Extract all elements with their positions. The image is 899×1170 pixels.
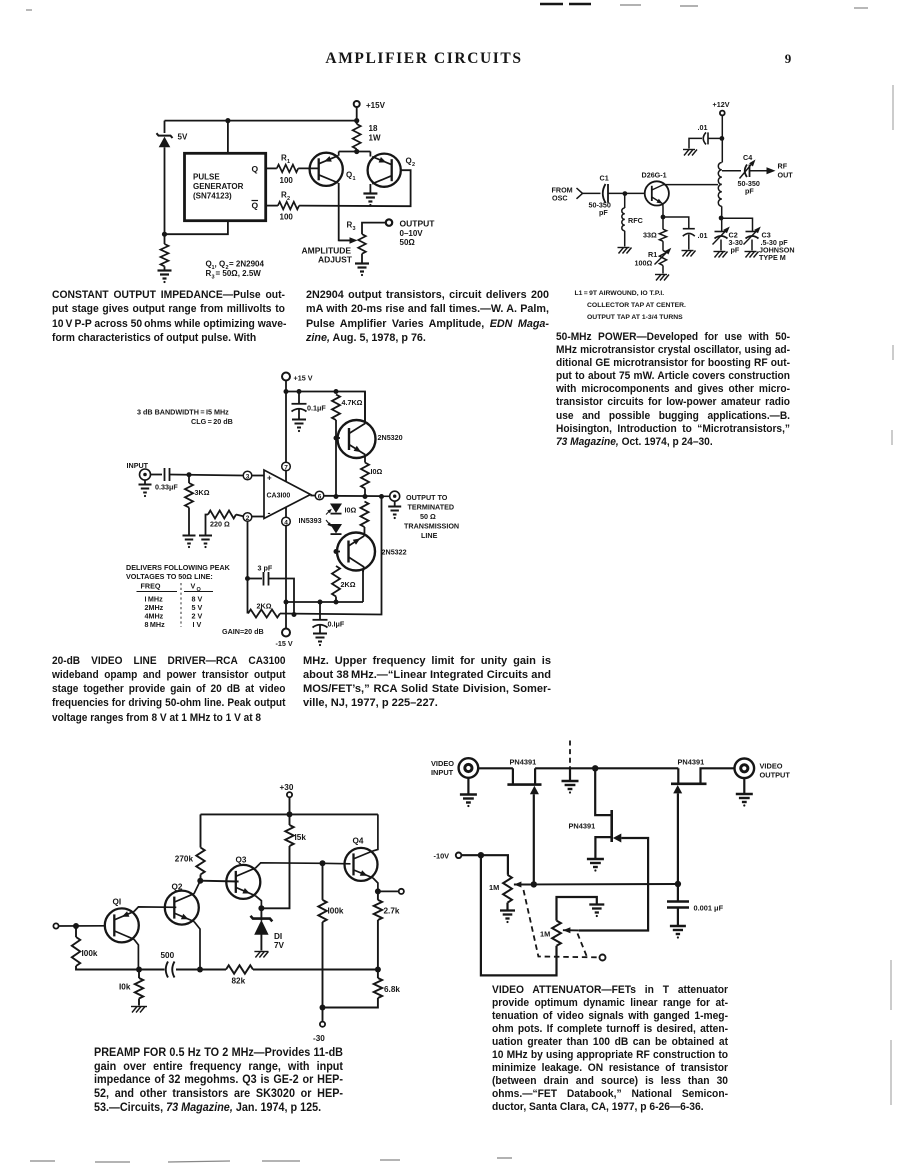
node base/RFC junction — [623, 191, 628, 196]
resistor 10 ohm upper — [361, 463, 369, 489]
svg-text:OUTPUT: OUTPUT — [760, 771, 791, 780]
resistor 33 ohm — [659, 229, 666, 241]
svg-text:(SN74123): (SN74123) — [193, 192, 232, 201]
resistor 10k — [138, 970, 140, 979]
svg-text:TRANSMISSION: TRANSMISSION — [404, 522, 459, 531]
wire pot2 top to ground — [557, 897, 597, 921]
-30 terminal — [322, 1008, 324, 1022]
VIDEO OUTPUT coax connector — [735, 759, 755, 779]
wire cap to rail and ground — [708, 137, 722, 139]
wire pin2 feedback down — [247, 521, 249, 613]
resistor 10 ohm lower — [361, 502, 369, 528]
svg-text:4.7KΩ: 4.7KΩ — [342, 398, 363, 407]
ground 220 — [199, 535, 212, 537]
svg-text:PULSE: PULSE — [193, 173, 220, 182]
resistor 3K — [185, 483, 193, 508]
input terminal preamp — [53, 923, 58, 928]
wire R2 to Q2 base — [299, 170, 411, 206]
wire C4 to RF OUT arrow — [750, 170, 767, 172]
svg-text:I0k: I0k — [119, 983, 131, 992]
wire 100k to bottom rail — [76, 966, 165, 970]
potentiometer 1M output — [552, 921, 561, 946]
svg-text:RF: RF — [778, 162, 788, 171]
scan artifacts top edge — [540, 3, 591, 5]
wire 10k to ground — [138, 999, 140, 1006]
wire base stub — [336, 437, 340, 439]
svg-text:3: 3 — [246, 473, 250, 480]
svg-text:OUTPUT TAP AT 1-3/4 TURNS: OUTPUT TAP AT 1-3/4 TURNS — [587, 314, 683, 321]
wire +30 rail — [201, 813, 378, 815]
resistor 100k input — [75, 926, 77, 937]
ground output bypass — [313, 633, 327, 635]
svg-text:I5k: I5k — [295, 833, 307, 842]
wire cap to ground — [298, 410, 300, 419]
ground under Q2 — [363, 192, 377, 194]
node input / 100k — [73, 923, 79, 929]
ground top bypass — [683, 149, 695, 151]
pin 2 — [243, 513, 252, 522]
wire R1 to ground — [662, 266, 664, 274]
transistor 2N5320 — [338, 420, 376, 458]
wire C2 to ground — [720, 240, 722, 251]
caption: preamp — [94, 1046, 343, 1115]
wire Q output to R1 — [266, 167, 277, 169]
svg-text:3 pF: 3 pF — [258, 564, 273, 573]
wire +15 down to pin7 — [285, 381, 287, 463]
wire pin7/pin4 stubs to opamp — [285, 471, 287, 482]
wire feedback return to output — [280, 497, 382, 615]
wire Q1 collector down to pot — [339, 183, 352, 240]
svg-text:1M: 1M — [540, 930, 550, 939]
wire cap to Q2 emitter node — [176, 969, 226, 971]
wire coil bottom to tank — [721, 206, 723, 231]
node 82k / 6.8k — [375, 967, 381, 973]
node output/10ohm — [363, 494, 368, 499]
ground video output — [743, 778, 745, 793]
wire box top supply stub — [227, 121, 229, 154]
node output/diode — [334, 494, 339, 499]
wire cap to ground — [677, 908, 679, 926]
caption: constant output impedance col1 — [52, 288, 285, 345]
svg-text:.01: .01 — [698, 123, 708, 132]
svg-text:pF: pF — [731, 246, 740, 255]
node +15 rail junction — [354, 118, 359, 123]
unlabeled resistor lower left — [161, 244, 169, 266]
wire cap to ground — [688, 235, 690, 250]
svg-text:L1 = 9T AIRWOUND, IO T.P.I.: L1 = 9T AIRWOUND, IO T.P.I. — [575, 290, 665, 297]
wire FET3 gate down — [677, 793, 679, 884]
ground C3 — [745, 251, 757, 253]
pulse generator U1 SN74123 box — [185, 153, 266, 220]
node bypass junction — [720, 136, 725, 141]
ground pot2 top — [589, 903, 604, 905]
wire C1 to base node — [609, 192, 645, 194]
svg-text:50Ω: 50Ω — [400, 238, 416, 247]
wire resistor to emitter rail — [356, 149, 358, 152]
svg-text:Q: Q — [406, 157, 412, 166]
node rail/0.1uF — [318, 600, 323, 605]
capacitor 0.1uF output bypass — [319, 602, 321, 619]
svg-text:2: 2 — [246, 515, 250, 522]
svg-text:100Ω: 100Ω — [635, 259, 653, 268]
wiper arrow amplitude adjust — [339, 239, 350, 241]
wire Q1 collector to Q2 base — [134, 907, 176, 912]
capacitor 0.001 uF — [677, 884, 679, 901]
caption: constant output impedance col2 — [306, 288, 549, 345]
svg-text:I0Ω: I0Ω — [345, 506, 357, 515]
node Q4 base / 100k — [320, 860, 326, 866]
wire cap to pin3 — [170, 475, 244, 476]
svg-text:5V: 5V — [178, 133, 188, 142]
wire box bottom return — [165, 221, 228, 235]
wire gate bus — [534, 883, 678, 885]
svg-text:9: 9 — [785, 51, 792, 66]
svg-text:2N5322: 2N5322 — [382, 548, 407, 557]
wire 2N5322 collector down — [362, 570, 364, 602]
svg-text:C4: C4 — [743, 153, 752, 162]
inductor RFC — [624, 194, 626, 208]
transistor Q4 — [345, 848, 378, 881]
node +30 rail — [287, 811, 293, 817]
svg-text:VIDEO: VIDEO — [431, 759, 454, 768]
output terminal preamp — [378, 890, 398, 892]
wire Q2 emitter up to rail — [369, 152, 371, 157]
ground pot1 — [500, 909, 515, 911]
ground zener — [254, 951, 268, 953]
svg-text:O: O — [197, 587, 202, 593]
wire 2K to -15 rail — [335, 597, 337, 603]
svg-text:pF: pF — [599, 208, 608, 217]
node rail/supply junction — [284, 389, 289, 394]
svg-text:OUTPUT: OUTPUT — [400, 219, 436, 229]
svg-text:100: 100 — [280, 213, 294, 222]
node -10V loop — [478, 852, 484, 858]
svg-text:pF: pF — [745, 187, 754, 196]
svg-text:6: 6 — [318, 493, 322, 500]
node input/3K — [187, 472, 192, 477]
svg-text:18: 18 — [369, 124, 378, 133]
node rail/4.7K junction — [334, 389, 339, 394]
svg-text:INPUT: INPUT — [431, 768, 454, 777]
wire node to Q3 base — [200, 880, 238, 883]
wire pot to ground — [361, 254, 363, 263]
node base 2N5320 — [334, 436, 339, 441]
transistor Q3 — [226, 865, 260, 899]
wire 6.8k to bottom node — [323, 998, 378, 1008]
svg-text:-10V: -10V — [434, 852, 450, 861]
svg-text:100: 100 — [280, 176, 294, 185]
wire rail to 270k — [200, 814, 202, 847]
transistor D26G-1 — [645, 181, 669, 205]
node tank junction — [719, 216, 724, 221]
ground R1 — [655, 274, 667, 276]
pin 6 — [315, 491, 324, 500]
ground lower left — [158, 269, 172, 271]
ground output terminal — [394, 501, 396, 505]
svg-text:AMPLIFIER CIRCUITS: AMPLIFIER CIRCUITS — [325, 50, 522, 67]
wire +12V down to coil — [721, 115, 723, 162]
-15V terminal — [282, 629, 290, 637]
wire left vertical to zener — [164, 121, 166, 133]
svg-text:2: 2 — [287, 196, 290, 202]
resistor 82k — [226, 965, 253, 973]
pin 7 — [282, 462, 291, 471]
svg-text:2KΩ: 2KΩ — [341, 580, 356, 589]
svg-text:7: 7 — [284, 464, 288, 471]
wire 82k to right node — [253, 969, 378, 971]
svg-text:+: + — [267, 474, 272, 483]
resistor 100k bias — [322, 863, 324, 900]
wire input to FET1 source — [478, 767, 513, 769]
wire opamp output — [311, 495, 316, 497]
+15V terminal circuit3 — [282, 373, 290, 381]
diode 1N5393 lower — [330, 524, 342, 534]
svg-text:8 MHz: 8 MHz — [145, 620, 166, 629]
potentiometer 1M input — [503, 875, 512, 903]
svg-text:2: 2 — [412, 162, 415, 168]
wire FET2 gate to pot2 — [579, 838, 648, 931]
resistor 15k — [285, 825, 293, 846]
+15V terminal — [354, 101, 360, 107]
capacitor 3 pF — [248, 578, 263, 580]
transistor 2N5322 — [337, 533, 375, 571]
caption: video attenuator — [492, 984, 728, 1114]
svg-text:DI: DI — [274, 932, 282, 941]
ground under pot R3 — [355, 262, 369, 264]
svg-text:+15V: +15V — [366, 101, 386, 110]
svg-text:OUT: OUT — [778, 171, 794, 180]
wire 33 to R1 — [662, 241, 664, 250]
wire Q4 collector to rail — [373, 814, 378, 851]
transistor Q1 2N2904 — [310, 153, 343, 186]
svg-text:3 dB BANDWIDTH = I5 MHz: 3 dB BANDWIDTH = I5 MHz — [137, 408, 229, 417]
wire 220 to pin2 — [236, 515, 243, 517]
node junction rail/box — [225, 118, 230, 123]
node feedback/3pF — [245, 576, 250, 581]
svg-text:GENERATOR: GENERATOR — [193, 182, 244, 191]
node diode chain / base 2N5322 — [334, 549, 339, 554]
pin 4 — [282, 517, 291, 526]
resistor 6.8k — [374, 978, 382, 998]
resistor 18 ohm 1W — [353, 124, 361, 149]
svg-text:0.001 μF: 0.001 μF — [694, 904, 724, 913]
ground C2 — [714, 251, 726, 253]
dashed gang linkage — [524, 890, 598, 957]
svg-text:ADJUST: ADJUST — [318, 255, 353, 265]
wire 3K to ground — [188, 508, 190, 535]
wire tank to C3 — [721, 218, 752, 231]
svg-text:+30: +30 — [280, 783, 294, 792]
capacitor .01 emitter bypass — [683, 228, 695, 230]
wire Q1 emitter down — [134, 939, 138, 969]
svg-text:= 2N2904: = 2N2904 — [229, 260, 264, 269]
node output/feedback — [379, 494, 384, 499]
wire zener to lower node — [164, 147, 166, 244]
svg-text:DELIVERS FOLLOWING PEAK: DELIVERS FOLLOWING PEAK — [126, 563, 231, 572]
dashed gang line top — [569, 741, 571, 769]
svg-text:Q: Q — [252, 164, 259, 174]
wire +30 to rail — [289, 797, 291, 825]
svg-text:PN4391: PN4391 — [569, 822, 596, 831]
ground 0.001 — [670, 925, 686, 927]
zener diode 5V — [157, 133, 173, 138]
svg-text:I00k: I00k — [328, 907, 344, 916]
resistor 220 ohm — [208, 511, 236, 519]
svg-text:220 Ω: 220 Ω — [210, 520, 230, 529]
wire base 2N5322 — [336, 551, 340, 553]
node rail/cap junction — [297, 389, 302, 394]
capacitor C1 50-350 pF — [603, 184, 608, 203]
svg-text:-30: -30 — [313, 1034, 325, 1043]
op-amp U1 CA3100 — [264, 470, 311, 519]
svg-text:+15 V: +15 V — [294, 374, 313, 383]
wire Q2 emitter down — [194, 922, 200, 970]
node Q2 collector / Q3 base — [197, 878, 203, 884]
svg-text:33Ω: 33Ω — [643, 231, 657, 240]
wire RFC to ground — [624, 231, 626, 247]
caption: 50-MHz power — [556, 331, 790, 449]
wire emitter bypass branch — [663, 217, 689, 228]
node 10k junction — [136, 967, 142, 973]
node Q3 emitter / 15k / zener — [258, 905, 264, 911]
wire Q2 collector to ground — [369, 184, 371, 193]
wire Q3 collector to Q4 base — [256, 863, 351, 868]
ground emitter bypass — [682, 250, 694, 252]
ground video input — [467, 778, 469, 794]
svg-text:50 Ω: 50 Ω — [420, 512, 436, 521]
node Q4 emitter — [375, 888, 381, 894]
ground input — [144, 480, 146, 484]
wire 100k down to -30 node — [322, 922, 324, 1008]
inductor L1 — [718, 163, 721, 170]
label arrows to diodes — [326, 510, 331, 515]
svg-text:4: 4 — [284, 519, 288, 526]
caption: 20-dB video line driver col2 — [303, 654, 551, 711]
wire R1 to Q1 base — [298, 167, 318, 169]
wire pot1 to ground — [506, 903, 508, 910]
svg-text:0.IμF: 0.IμF — [328, 620, 345, 629]
svg-text:VIDEO: VIDEO — [760, 762, 783, 771]
svg-text:500: 500 — [161, 951, 175, 960]
wire C3 to ground — [751, 240, 753, 251]
node gate bus right — [675, 881, 681, 887]
svg-text:+12V: +12V — [713, 100, 730, 109]
capacitor .01 bypass top — [703, 132, 706, 144]
wire -15 rail — [286, 601, 363, 603]
svg-text:1: 1 — [353, 176, 356, 182]
svg-text:PN4391: PN4391 — [510, 758, 537, 767]
ground 3K — [183, 535, 196, 537]
wire 3pF to feedback node — [269, 579, 295, 615]
svg-text:2.7k: 2.7k — [384, 907, 400, 916]
transistor Q2 2N2904 — [368, 154, 401, 187]
svg-text:1W: 1W — [369, 134, 381, 143]
svg-text:82k: 82k — [232, 977, 246, 986]
node Q2 emitter / rail — [197, 967, 203, 973]
svg-text:C1: C1 — [600, 174, 609, 183]
svg-text:3: 3 — [353, 226, 356, 232]
svg-text:-: - — [268, 508, 271, 518]
svg-text:TERMINATED: TERMINATED — [408, 503, 455, 512]
wire top rail circuit1 — [165, 120, 357, 122]
capacitor 500 — [166, 962, 168, 978]
svg-text:I00k: I00k — [82, 949, 98, 958]
svg-text:1: 1 — [287, 159, 290, 165]
transistor Q2 — [165, 891, 199, 925]
wire pot to output terminal — [362, 223, 386, 235]
capacitor 0.33uF input — [151, 474, 163, 476]
node -15 rail junction — [284, 600, 289, 605]
wire input to C1 — [583, 192, 601, 194]
svg-text:270k: 270k — [175, 855, 194, 864]
svg-text:CLG = 20 dB: CLG = 20 dB — [191, 417, 233, 426]
node rail / FET2 drain — [592, 765, 598, 771]
potentiometer R3 — [358, 234, 366, 254]
+12V terminal — [720, 111, 725, 116]
capacitor 0.1uF supply — [298, 392, 300, 404]
svg-text:FREQ: FREQ — [141, 582, 161, 591]
svg-text:LINE: LINE — [421, 531, 438, 540]
ground center tap — [569, 768, 571, 780]
wire collector tap — [664, 184, 719, 186]
svg-text:CA3I00: CA3I00 — [267, 493, 291, 500]
resistor R2 100 — [278, 202, 299, 210]
svg-text:I0Ω: I0Ω — [371, 467, 383, 476]
wire 10ohm to output node — [364, 489, 366, 497]
wire Q3 emitter down — [256, 896, 262, 909]
svg-text:PN4391: PN4391 — [678, 758, 705, 767]
svg-text:Q: Q — [346, 171, 352, 180]
svg-text:= 50Ω, 2.5W: = 50Ω, 2.5W — [216, 269, 262, 278]
node -30 junction — [320, 1005, 326, 1011]
wire +15V down — [356, 107, 358, 124]
variable capacitor C3 5-30 pF — [746, 231, 759, 233]
node 3pF/2K feedback — [292, 612, 297, 617]
node gate bus left — [531, 881, 537, 887]
ground FET2 source — [587, 858, 604, 860]
svg-text:1M: 1M — [489, 883, 499, 892]
svg-text:V: V — [191, 582, 196, 591]
wire emitter down — [662, 204, 664, 229]
wire top rail — [535, 767, 678, 769]
caption: 20-dB video line driver col1 — [52, 654, 285, 725]
wire to ground lower left — [164, 266, 166, 269]
svg-text:RFC: RFC — [628, 216, 643, 225]
node zener/box-return junction — [162, 232, 167, 237]
wire emitter rail — [339, 151, 371, 153]
transistor Q1 — [105, 908, 139, 942]
svg-text:-15 V: -15 V — [276, 639, 293, 648]
svg-text:Q4: Q4 — [353, 837, 364, 846]
svg-text:3: 3 — [212, 275, 215, 281]
scan artifacts bottom edge — [30, 1158, 512, 1162]
node emitter rail junction — [354, 149, 359, 154]
potentiometer R1 100 ohm — [659, 251, 666, 266]
diode 1N5393 upper — [330, 504, 342, 514]
wire pin4 to -15V — [285, 507, 287, 518]
svg-text:2KΩ: 2KΩ — [257, 602, 272, 611]
+30 terminal — [287, 792, 292, 797]
svg-text:VOLTAGES TO 50Ω LINE:: VOLTAGES TO 50Ω LINE: — [126, 572, 213, 581]
scan artifact right margin — [891, 85, 893, 1105]
variable capacitor C2 3-30 pF — [715, 231, 728, 233]
resistor 4.7K — [332, 395, 340, 421]
svg-text:OUTPUT TO: OUTPUT TO — [406, 493, 448, 502]
variable capacitor C4 50-350 pF — [745, 165, 750, 178]
svg-text:0.33μF: 0.33μF — [155, 483, 178, 492]
svg-text:6.8k: 6.8k — [384, 985, 400, 994]
OUTPUT terminal — [386, 219, 392, 225]
